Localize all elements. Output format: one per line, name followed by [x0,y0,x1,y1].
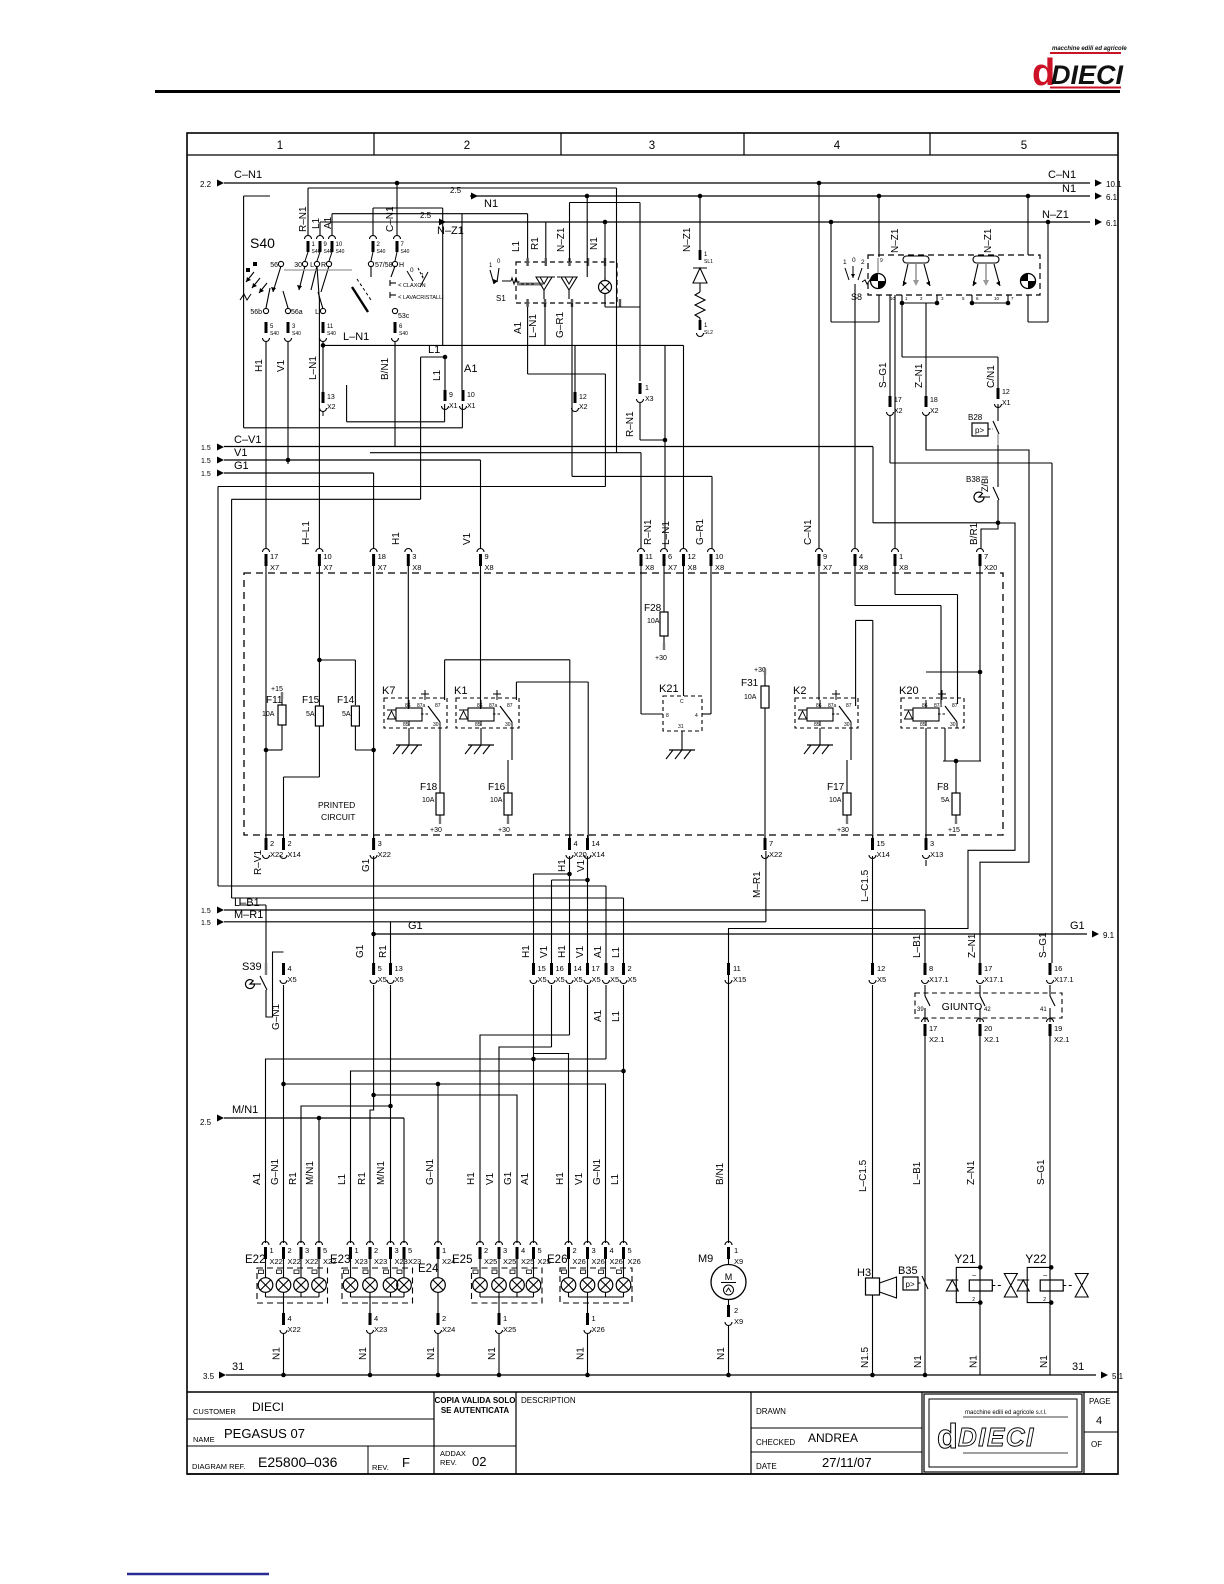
svg-text:86: 86 [477,703,483,709]
svg-text:1: 1 [503,1314,507,1323]
svg-text:2: 2 [270,839,274,848]
svg-text:X17.1: X17.1 [1054,975,1074,984]
svg-text:N1.5: N1.5 [860,1346,871,1368]
svg-text:M: M [725,1272,733,1282]
svg-text:56: 56 [270,262,278,269]
resistor SL [695,292,705,318]
svg-text:S40: S40 [336,249,345,255]
svg-text:02: 02 [472,1454,486,1469]
svg-text:H1: H1 [555,1172,566,1185]
wire X8-12 to K21 [683,573,685,696]
wire H1 col through PC [265,573,267,750]
svg-text:X26: X26 [592,1325,605,1334]
svg-text:10.1: 10.1 [1106,180,1122,189]
svg-text:85: 85 [475,722,481,728]
svg-text:N1: N1 [426,1347,437,1360]
svg-text:X7: X7 [270,563,279,572]
wire S40-9 L1 to S1 [319,222,321,236]
S40 switch arms [273,266,281,292]
svg-text:11: 11 [645,552,653,561]
svg-text:L: L [315,309,319,316]
terminal X2-17 [889,396,892,407]
wire S40-1 R-N1 route to X8-11 [307,188,309,236]
svg-text:–: – [972,1272,976,1279]
svg-text:X9: X9 [734,1257,743,1266]
svg-text:1: 1 [645,385,649,392]
S8 rocker switch 2 [973,256,999,263]
terminals X2.1 [922,1019,929,1023]
svg-text:N–Z1: N–Z1 [983,228,994,253]
L-N1 bus to S1 [321,343,326,348]
svg-text:S39: S39 [242,961,262,973]
K2 ground [819,728,821,745]
svg-text:2: 2 [972,1297,975,1303]
svg-text:X5: X5 [395,975,404,984]
svg-text:42: 42 [984,1007,991,1013]
wire mesh jog E26-H1 [534,1054,569,1244]
svg-text:X7: X7 [378,563,387,572]
svg-text:A1: A1 [464,363,477,375]
svg-text:NAME: NAME [193,1435,215,1444]
svg-text:C: C [680,699,684,705]
S1 internal common [517,283,543,286]
svg-text:macchine edili ed agricole s.r: macchine edili ed agricole s.r.l. [965,1410,1047,1416]
svg-text:CHECKED: CHECKED [756,1438,795,1447]
GIUNTO box [915,993,1062,1018]
wire V1 jog to X5-16 [587,856,589,963]
svg-text:X5: X5 [538,975,547,984]
svg-text:10A: 10A [490,797,503,804]
svg-text:F31: F31 [741,678,759,689]
svg-text:PRINTED: PRINTED [318,800,355,810]
K1 contact out to F16 [511,728,513,760]
svg-text:1: 1 [355,1246,359,1255]
wires into PC from terminals [265,566,267,573]
svg-text:M–R1: M–R1 [752,871,763,898]
svg-text:2.5: 2.5 [420,211,432,220]
svg-text:2: 2 [288,1246,292,1255]
svg-text:C/N1: C/N1 [986,365,997,388]
wire S39 riser to bus [217,885,219,887]
svg-text:13: 13 [327,394,335,401]
svg-text:PAGE: PAGE [1089,1397,1111,1406]
svg-text:S1: S1 [496,294,506,303]
svg-text:30: 30 [844,722,850,728]
svg-text:30: 30 [950,722,956,728]
svg-text:1.5: 1.5 [201,471,211,478]
svg-text:S40: S40 [292,331,301,337]
wire mesh h5 G-N1 [284,1084,606,1243]
svg-text:4: 4 [288,1314,292,1323]
svg-text:X17.1: X17.1 [929,975,949,984]
wire mesh h7 R1 [390,985,392,1106]
svg-text:7: 7 [984,552,988,561]
svg-text:14: 14 [574,964,582,973]
svg-text:V1: V1 [276,359,287,372]
svg-text:F14: F14 [337,695,355,706]
svg-text:X9: X9 [734,1317,743,1326]
wire G-N1 col down [283,856,285,963]
svg-text:X14: X14 [877,850,890,859]
svg-text:19: 19 [1054,1024,1062,1033]
svg-text:CIRCUIT: CIRCUIT [321,812,355,822]
svg-text:H1: H1 [521,945,532,958]
svg-text:L–N1: L–N1 [661,521,672,545]
svg-text:4: 4 [1096,1415,1102,1427]
svg-text:1: 1 [734,1246,738,1255]
svg-text:2: 2 [464,140,470,152]
svg-text:N–Z1: N–Z1 [437,225,464,237]
svg-text:C–N1: C–N1 [234,169,262,181]
S8 rocker switch 1 [903,256,929,263]
svg-text:0: 0 [852,257,856,264]
wire X8-1 drop to K20-87 [894,295,896,549]
wire B38 branch right [729,523,1016,1243]
svg-text:M9: M9 [698,1253,713,1265]
svg-text:R–N1: R–N1 [625,411,636,437]
wire S40-10 A1 to S1 [331,214,333,236]
wire H1 jog to X5-15 [569,856,571,963]
giunto contacts [924,985,926,996]
svg-text:H1: H1 [557,859,568,872]
bus G1 mid [373,856,375,963]
svg-text:L1: L1 [511,240,522,252]
svg-text:COPIA VALIDA SOLO: COPIA VALIDA SOLO [434,1396,515,1405]
svg-text:K20: K20 [899,685,919,697]
svg-text:M/N1: M/N1 [232,1104,258,1116]
wire top-left box edge to X1-10 [243,196,245,428]
svg-text:30: 30 [505,722,511,728]
svg-text:1: 1 [270,1246,274,1255]
X13 stub [925,860,927,866]
svg-text:3: 3 [649,140,655,152]
svg-text:11: 11 [327,324,334,330]
wire X8-4 drop to K20-87a [854,284,856,549]
svg-text:4: 4 [859,552,863,561]
svg-text:X25: X25 [503,1325,516,1334]
svg-text:F18: F18 [420,782,438,793]
wire mesh h2 V1-E25 [499,1047,552,1243]
S8 left indicator lamp [871,274,886,289]
svg-text:85: 85 [814,722,820,728]
svg-text:X8: X8 [899,563,908,572]
svg-text:2: 2 [628,964,632,973]
wire C-N1 to K2 [818,573,820,700]
svg-text:F17: F17 [827,782,845,793]
svg-text:V1: V1 [539,945,550,958]
DIECI logo title block [924,1394,1082,1472]
S8 outer wiring left [830,222,832,322]
svg-text:macchine edili ed agricole: macchine edili ed agricole [1052,46,1127,52]
svg-text:87: 87 [435,703,441,709]
svg-text:SE AUTENTICATA: SE AUTENTICATA [441,1406,510,1415]
svg-text:9: 9 [449,392,453,399]
svg-text:G1: G1 [355,944,366,958]
svg-text:X23: X23 [374,1325,387,1334]
svg-text:X22: X22 [288,1325,301,1334]
svg-text:+15: +15 [271,686,283,693]
wire Z-N1 from S8 [925,303,927,396]
svg-text:L1: L1 [337,1173,348,1185]
svg-text:A1: A1 [252,1172,263,1185]
S40 terminals 1,9,10,2,7 [305,236,312,239]
svg-text:3: 3 [592,1246,596,1255]
svg-text:SL2: SL2 [704,330,713,336]
svg-text:X1: X1 [467,403,476,410]
svg-text:DIECI: DIECI [252,1400,284,1414]
svg-text:DESCRIPTION: DESCRIPTION [521,1396,576,1405]
svg-text:16: 16 [556,964,564,973]
svg-text:6.1: 6.1 [1106,219,1118,228]
svg-text:+30: +30 [655,655,667,662]
switch S1 block [516,262,617,303]
svg-text:39: 39 [917,1007,924,1013]
wire L1 riser bus [232,897,624,899]
svg-text:K2: K2 [793,685,806,697]
svg-text:–: – [1043,1272,1047,1279]
svg-text:X8: X8 [412,563,421,572]
wire S-G1 to giunto col [889,415,891,463]
svg-text:X8: X8 [859,563,868,572]
wire X8-12 drop [683,345,685,549]
top rule [155,90,1120,93]
svg-text:10: 10 [336,242,343,248]
svg-text:2: 2 [573,1246,577,1255]
wire H-L1 to F15 and F14 [318,573,320,660]
wire H1 to K7 coil [407,573,409,709]
svg-text:X22: X22 [378,850,391,859]
svg-text:G1: G1 [234,460,249,472]
svg-text:X8: X8 [715,563,724,572]
svg-text:X23: X23 [374,1257,387,1266]
svg-text:G1: G1 [408,920,423,932]
svg-text:1.5: 1.5 [201,920,211,927]
svg-text:15: 15 [877,839,885,848]
svg-text:2: 2 [734,1306,738,1315]
svg-text:2: 2 [374,1246,378,1255]
svg-text:K7: K7 [382,685,395,697]
svg-text:X23: X23 [395,1257,408,1266]
svg-text:17: 17 [984,964,992,973]
wire 12/X2 branch [574,345,576,392]
svg-text:E25800–036: E25800–036 [258,1454,338,1470]
svg-text:2.5: 2.5 [450,186,462,195]
diode SL [693,268,707,283]
svg-text:X14: X14 [288,850,301,859]
svg-text:S40: S40 [250,235,275,251]
svg-text:X26: X26 [573,1257,586,1266]
svg-text:85: 85 [920,722,926,728]
svg-text:L1: L1 [432,369,443,381]
svg-text:9: 9 [823,552,827,561]
svg-text:B/N1: B/N1 [380,357,391,380]
svg-text:X2: X2 [327,404,336,411]
svg-text:G–N1: G–N1 [271,1003,282,1030]
svg-text:R1: R1 [288,1172,299,1185]
svg-text:20: 20 [984,1024,992,1033]
svg-text:X17.1: X17.1 [984,975,1004,984]
svg-text:M–R1: M–R1 [234,909,263,921]
svg-text:X5: X5 [628,975,637,984]
svg-text:Z–N1: Z–N1 [914,363,925,388]
svg-text:X22: X22 [288,1257,301,1266]
svg-text:5A: 5A [306,711,315,718]
svg-text:5.1: 5.1 [1112,1372,1124,1381]
svg-text:N–Z1: N–Z1 [1042,209,1069,221]
svg-text:C–V1: C–V1 [234,434,262,446]
terminal X1-9 [444,390,447,401]
svg-text:17: 17 [592,964,600,973]
svg-text:X8: X8 [645,563,654,572]
svg-text:9: 9 [485,552,489,561]
DIECI logo top right [1032,46,1127,94]
svg-text:N–Z1: N–Z1 [890,228,901,253]
S40 stalk arrows left [252,278,260,288]
wire A1-L1 left risers [218,486,605,488]
svg-text:REV.: REV. [372,1463,389,1472]
svg-text:1.5: 1.5 [201,908,211,915]
svg-text:p>: p> [906,1280,915,1289]
svg-text:G–N1: G–N1 [270,1158,281,1185]
svg-text:X25: X25 [484,1257,497,1266]
S40 wiper lever [352,287,368,312]
svg-text:H–L1: H–L1 [301,521,312,545]
svg-text:V1: V1 [485,1172,496,1185]
wire C/N1 from S8 to X1-12 [901,303,903,357]
svg-text:13: 13 [395,964,403,973]
svg-text:X24: X24 [442,1325,455,1334]
svg-text:E26: E26 [547,1254,567,1266]
wire X8-11 to K21 left [640,573,642,714]
svg-text:17: 17 [270,552,278,561]
svg-text:V1: V1 [574,1172,585,1185]
K1 ground [480,728,482,745]
svg-text:A1: A1 [593,1009,604,1022]
wire B/R1 to K20 [979,573,981,761]
wire N-Z1 to S1 [604,222,606,281]
K7 contact out to F18 [439,728,441,793]
PC top terminals [263,549,270,553]
svg-text:L–N1: L–N1 [528,314,539,338]
svg-text:X2.1: X2.1 [1054,1035,1069,1044]
S1 bottom pins [526,299,528,307]
svg-text:1: 1 [592,1314,596,1323]
svg-text:C–N1: C–N1 [1048,169,1076,181]
svg-text:2: 2 [288,839,292,848]
svg-text:N1: N1 [716,1347,727,1360]
svg-text:2: 2 [484,1246,488,1255]
svg-text:B/N1: B/N1 [715,1162,726,1185]
claxon contacts [390,282,396,284]
svg-text:X3: X3 [645,396,654,403]
svg-text:H1: H1 [466,1172,477,1185]
wire S-G1 from S8 [889,295,891,396]
wire S40-2 [372,208,374,236]
svg-text:DIAGRAM REF.: DIAGRAM REF. [192,1462,245,1471]
svg-text:S40: S40 [377,249,386,255]
svg-text:DRAWN: DRAWN [756,1407,786,1416]
svg-text:5A: 5A [941,797,950,804]
svg-text:<: < [398,295,402,301]
svg-text:56a: 56a [291,309,303,316]
svg-text:8: 8 [929,964,933,973]
K2 contact to F17 [850,728,852,760]
svg-text:X5: X5 [592,975,601,984]
svg-text:4: 4 [834,140,841,152]
svg-text:16: 16 [1054,964,1062,973]
wire C-N1 drop [818,183,820,549]
svg-text:LAVACRISTALLI: LAVACRISTALLI [403,295,444,301]
svg-text:L1: L1 [611,946,622,958]
svg-text:3: 3 [930,839,934,848]
svg-text:1: 1 [442,1246,446,1255]
wire H-L1 from S40 L [317,267,319,300]
wire Z-N1 jog right [926,415,1029,963]
svg-text:86: 86 [816,703,822,709]
svg-text:L–B1: L–B1 [912,1161,923,1185]
svg-text:3: 3 [305,1246,309,1255]
svg-text:d: d [937,1418,958,1456]
svg-text:+30: +30 [430,827,442,834]
svg-text:N1: N1 [913,1355,924,1368]
S40 contact circles [278,261,283,266]
svg-text:10: 10 [323,552,331,561]
title block [187,1391,1118,1393]
wire mesh h4 L1 [351,1071,624,1243]
svg-text:5A: 5A [342,711,351,718]
svg-text:B/R1: B/R1 [969,522,980,545]
wire X1-9 branch [444,404,446,422]
svg-text:+30: +30 [498,827,510,834]
svg-text:A1: A1 [593,945,604,958]
svg-text:N1: N1 [1039,1355,1050,1368]
terminal X5-12 [871,963,874,975]
svg-text:L–C1.5: L–C1.5 [860,869,871,902]
wire G1 col through PC [373,573,375,750]
svg-text:X8: X8 [485,563,494,572]
svg-text:S40: S40 [399,331,408,337]
svg-text:N–Z1: N–Z1 [682,227,693,252]
GIUNTO terminals X17.1 [924,963,927,975]
S8 right indicator lamp [1021,274,1036,289]
svg-text:E22: E22 [245,1254,265,1266]
svg-text:G–N1: G–N1 [425,1158,436,1185]
svg-text:X5: X5 [378,975,387,984]
svg-text:X2.1: X2.1 [929,1035,944,1044]
svg-text:4: 4 [288,964,292,973]
svg-text:5: 5 [408,1246,412,1255]
svg-text:R–N1: R–N1 [298,206,309,232]
svg-text:18: 18 [930,397,938,404]
terminal X2-13 [322,392,325,403]
K20 coil out to X13-3 [925,728,927,838]
svg-text:V1: V1 [576,859,587,872]
svg-text:X26: X26 [628,1257,641,1266]
wire S40-7 C-N1 [396,183,398,236]
svg-text:4: 4 [521,1246,525,1255]
svg-text:41: 41 [1040,1007,1047,1013]
svg-text:2: 2 [1043,1297,1046,1303]
svg-text:10A: 10A [422,797,435,804]
svg-text:S–G1: S–G1 [878,362,889,388]
svg-text:N1: N1 [589,237,600,250]
svg-text:X15: X15 [733,975,746,984]
svg-text:X1: X1 [1002,400,1011,407]
svg-text:15: 15 [538,964,546,973]
svg-text:G–R1: G–R1 [555,311,566,338]
svg-text:X2.1: X2.1 [984,1035,999,1044]
svg-text:4: 4 [574,839,578,848]
